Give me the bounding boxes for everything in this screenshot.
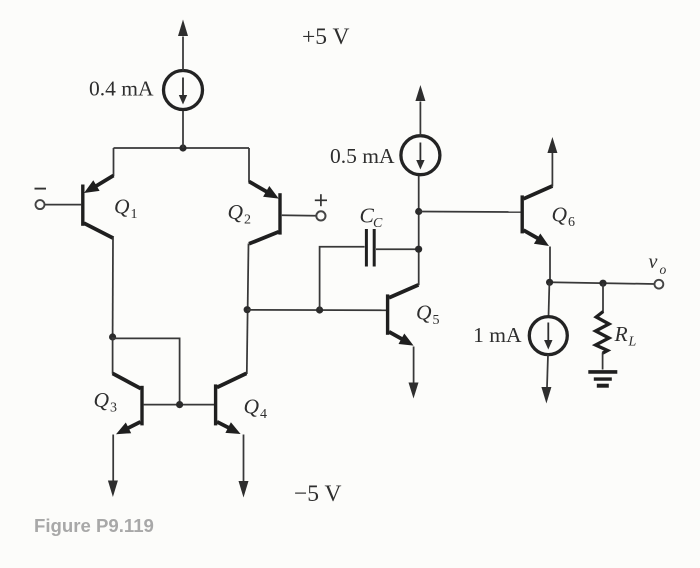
node: RL junction [599, 280, 606, 287]
wire: 1 mA source top lead [548, 283, 551, 317]
svg-text:3: 3 [110, 401, 117, 416]
svg-text:Q: Q [228, 200, 244, 224]
wire: lead to +5V [182, 37, 184, 71]
svg-text:4: 4 [260, 407, 267, 422]
svg-text:Q: Q [552, 203, 568, 227]
transistor Q2 (pnp, mirrored) [249, 182, 280, 244]
node: tail junction at top rail [179, 144, 186, 151]
wire: Q6 collector lead up [551, 153, 553, 187]
transistor Q3 (npn, mirrored) [113, 373, 142, 434]
transistor Q5 (npn) [388, 285, 419, 346]
node: Q1/Q3 collector tie [109, 333, 116, 340]
wire: top rail joining Q1/Q2 emitters [114, 147, 250, 149]
wire: 1 mA source bottom lead [547, 355, 548, 388]
wire: Q1 base lead [45, 204, 81, 206]
svg-text:Q: Q [244, 395, 260, 419]
svg-text:L: L [628, 335, 637, 350]
current source I2 0.5 mA [401, 136, 440, 175]
svg-text:Q: Q [114, 195, 130, 219]
label: minus sign [35, 188, 47, 190]
wire: Cc left plate connection [320, 247, 365, 310]
svg-text:5: 5 [433, 313, 440, 328]
supply arrow 0.5 mA source [415, 85, 425, 101]
node: Cc right junction [415, 246, 422, 253]
label: plus sign [315, 194, 327, 206]
svg-text:Q: Q [94, 388, 110, 412]
svg-text:C: C [373, 216, 383, 231]
svg-text:o: o [660, 262, 667, 277]
svg-text:6: 6 [568, 215, 575, 230]
wire: Q5 collector column [418, 175, 420, 285]
supply arrow +5V [178, 20, 188, 37]
wire: output rail [550, 282, 655, 284]
node: emitter/output junction [546, 279, 553, 286]
svg-text:1: 1 [131, 207, 138, 222]
supply arrow Q3 to -5V [108, 481, 118, 498]
svg-text:−5 V: −5 V [294, 481, 341, 507]
svg-text:2: 2 [244, 213, 251, 228]
input terminal (inverting) [36, 200, 45, 209]
wire: RL bottom lead [602, 353, 604, 370]
transistor Q4 (npn) [216, 373, 247, 434]
supply arrow Q4 to -5V [239, 481, 249, 498]
wire: Cc right plate connection [376, 248, 419, 250]
wire: Q3 collector [112, 337, 114, 374]
wire: Q6 emitter drop [549, 247, 551, 283]
wire: Q3/Q4 base tie [144, 404, 214, 406]
node: Cc left branch junction [316, 306, 323, 313]
output terminal vo [655, 280, 664, 289]
wire: second stage base feed [247, 309, 386, 311]
wire: Q1 collector down the left column [112, 238, 114, 338]
wire: RL top lead [602, 283, 604, 312]
wire: Q6 base feed [419, 211, 521, 214]
wire: 0.4 mA source to rail [182, 110, 184, 148]
wire: Q5 emitter drop [413, 347, 415, 383]
capacitor CC [366, 229, 374, 267]
node: second-stage takeoff [244, 306, 251, 313]
svg-text:0.4 mA: 0.4 mA [89, 77, 154, 101]
current source I1 0.4 mA [164, 71, 203, 110]
resistor RL [596, 312, 609, 354]
wire: rail to Q2 emitter [248, 148, 250, 182]
ground [588, 372, 617, 386]
wire: Q4 emitter drop [243, 435, 245, 482]
svg-text:R: R [614, 322, 628, 346]
node: base tie junction [176, 401, 183, 408]
transistor Q1 (pnp) [83, 176, 114, 239]
wire: left column rail to Q1 emitter [113, 148, 115, 176]
svg-text:Figure P9.119: Figure P9.119 [34, 515, 154, 536]
current source I3 1 mA [529, 317, 567, 355]
supply arrow Q5 to -5V [409, 383, 419, 399]
svg-text:1 mA: 1 mA [473, 323, 522, 347]
svg-text:0.5 mA: 0.5 mA [330, 144, 395, 168]
node: Q6 base takeoff [415, 208, 422, 215]
wire: Q2 base lead [282, 214, 317, 216]
wire: 0.5 mA lead up [419, 102, 421, 136]
svg-text:v: v [649, 251, 658, 273]
wire: mirror diode tie (collector to bases) [113, 338, 180, 404]
svg-text:Q: Q [416, 301, 432, 325]
wire: Q3 emitter drop [112, 435, 114, 482]
transistor Q6 (npn) [522, 186, 552, 246]
wire: Q2 collector down to Q4 [247, 244, 249, 375]
supply arrow Q6 collector [547, 137, 557, 153]
supply arrow 1 mA to -5V [541, 387, 551, 404]
svg-text:+5 V: +5 V [302, 24, 349, 50]
output terminal (noninverting) [316, 211, 325, 220]
